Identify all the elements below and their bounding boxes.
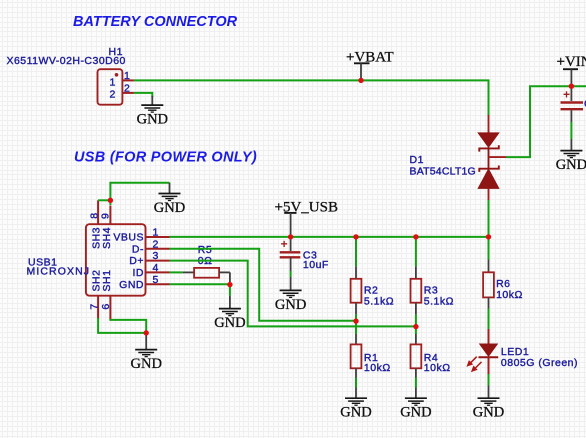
junction R5/GND	[227, 282, 232, 287]
svg-text:1: 1	[124, 70, 130, 82]
svg-text:1: 1	[153, 227, 159, 239]
svg-text:BAT54CLT1G: BAT54CLT1G	[410, 166, 476, 178]
ground below USB1	[130, 333, 161, 372]
svg-text:5.1kΩ: 5.1kΩ	[424, 295, 454, 307]
resistor R1	[351, 334, 391, 398]
junction R6/D1/+5V	[486, 234, 491, 239]
svg-text:10uF: 10uF	[303, 259, 329, 271]
wire R2 bottom to R1	[355, 315, 357, 334]
svg-text:SH4: SH4	[101, 227, 113, 249]
wire net VBAT: H1.1 right then down to D1	[134, 80, 489, 116]
wire net +5V_USB horizontal	[170, 236, 489, 238]
svg-text:USB (FOR POWER ONLY): USB (FOR POWER ONLY)	[74, 150, 257, 166]
junction R2 top	[353, 234, 358, 239]
svg-text:SH1: SH1	[101, 270, 113, 292]
resistor R2	[351, 237, 395, 315]
junction C3/+5V	[288, 234, 293, 239]
svg-text:9: 9	[100, 213, 112, 219]
pin GND 5	[146, 283, 170, 285]
svg-text:LED1: LED1	[501, 346, 529, 358]
resistor R3	[411, 237, 455, 315]
svg-text:BATTERY CONNECTOR: BATTERY CONNECTOR	[73, 14, 238, 30]
svg-text:D-: D-	[132, 243, 144, 255]
svg-text:10kΩ: 10kΩ	[424, 362, 451, 374]
svg-text:+: +	[563, 88, 570, 102]
junction shield bottom	[144, 330, 149, 335]
connector H1	[7, 46, 134, 104]
wire H1.2 to gnd	[134, 93, 152, 97]
junction VBAT net	[358, 78, 363, 83]
junction shield	[108, 198, 113, 203]
svg-text:10kΩ: 10kΩ	[364, 362, 391, 374]
ground under C4	[556, 151, 586, 173]
ground under C3	[275, 290, 306, 312]
svg-text:2: 2	[153, 238, 159, 250]
wire R3 bottom to R4	[415, 315, 417, 334]
ground under LED1	[473, 398, 504, 420]
diode D1	[410, 115, 507, 201]
capacitor C3	[280, 237, 329, 291]
junction +VIN	[569, 84, 574, 89]
svg-text:GND: GND	[119, 279, 144, 291]
svg-text:+VBAT: +VBAT	[346, 50, 394, 66]
svg-text:10kΩ: 10kΩ	[496, 289, 523, 301]
ground under R4	[400, 398, 431, 420]
junction R3 top	[413, 234, 418, 239]
svg-text:2: 2	[110, 89, 116, 101]
svg-text:0805G (Green): 0805G (Green)	[501, 357, 578, 369]
pin VBUS 1	[146, 236, 170, 238]
svg-text:2: 2	[124, 82, 130, 94]
wire D1 bottom to net	[488, 200, 490, 237]
svg-text:VBUS: VBUS	[113, 232, 144, 244]
pin ID 4	[146, 271, 170, 273]
svg-text:6: 6	[100, 303, 112, 309]
svg-text:+VIN: +VIN	[557, 54, 586, 70]
svg-text:5: 5	[153, 274, 159, 286]
svg-text:5.1kΩ: 5.1kΩ	[364, 295, 394, 307]
svg-text:3: 3	[153, 250, 159, 262]
pin SH3 8	[97, 200, 99, 224]
wire D- net	[170, 249, 357, 321]
ground under R1	[340, 398, 371, 420]
pin SH4 9	[109, 206, 111, 225]
svg-text:8: 8	[88, 213, 100, 219]
svg-text:X6511WV-02H-C30D60: X6511WV-02H-C30D60	[7, 55, 126, 67]
wire shield pins to gnd (top)	[98, 199, 110, 201]
svg-text:4: 4	[153, 262, 159, 274]
pin D- 2	[146, 248, 170, 250]
svg-text:MICROXNJ: MICROXNJ	[27, 265, 91, 277]
pin SH2 7	[97, 296, 99, 319]
pin D+ 3	[146, 260, 170, 262]
ground under H1	[137, 96, 168, 128]
svg-text:7: 7	[88, 303, 100, 309]
led arrows	[468, 357, 482, 371]
power +VBAT	[346, 50, 394, 81]
ground under R5	[214, 285, 245, 331]
resistor R5	[170, 244, 230, 284]
resistor R6	[483, 237, 523, 329]
wire D+ net	[170, 261, 416, 327]
LED LED1	[468, 329, 578, 398]
junction D+/R3/R4	[413, 324, 418, 329]
wire shield pins to gnd (bottom)	[98, 318, 146, 333]
capacitor C4 (right edge)	[561, 86, 586, 150]
wire D1 middle to +VIN	[506, 86, 586, 157]
svg-text:+5V_USB: +5V_USB	[275, 200, 338, 216]
svg-text:1: 1	[110, 76, 116, 88]
connector USB1	[27, 200, 170, 320]
svg-text:+: +	[281, 237, 288, 251]
svg-text:ID: ID	[133, 267, 145, 279]
junction D-/R2/R1	[353, 318, 358, 323]
svg-text:D+: D+	[129, 255, 144, 267]
wire USB GND pin5 to R5	[170, 283, 230, 285]
pin SH1 6	[109, 296, 111, 320]
svg-text:D1: D1	[410, 154, 424, 166]
ground above USB1	[154, 183, 185, 216]
resistor R4	[411, 334, 451, 398]
power +5V_USB	[275, 200, 338, 237]
power +VIN	[557, 54, 586, 86]
